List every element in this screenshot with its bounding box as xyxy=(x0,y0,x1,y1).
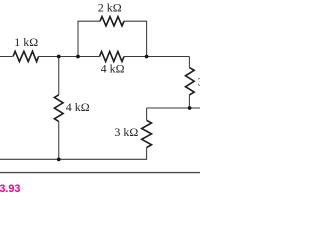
svg-text:3.93: 3.93 xyxy=(0,183,20,195)
svg-text:1 kΩ: 1 kΩ xyxy=(14,35,38,49)
svg-text:3 kΩ: 3 kΩ xyxy=(114,125,138,139)
svg-text:4 kΩ: 4 kΩ xyxy=(66,100,90,114)
svg-text:2 kΩ: 2 kΩ xyxy=(98,1,122,15)
svg-text:3 kΩ: 3 kΩ xyxy=(198,75,200,89)
svg-text:4 kΩ: 4 kΩ xyxy=(101,62,125,76)
